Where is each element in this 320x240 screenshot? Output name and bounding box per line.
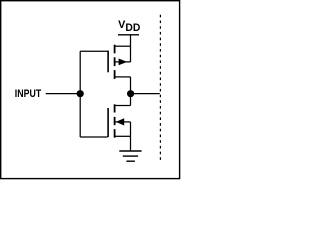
transistor Q2 NMOS bulk arrow (points left) [116,118,125,125]
transistor Q1 PMOS drain stub (bottom) [115,76,131,78]
transistor Q2 NMOS drain stub (top, to output) [115,105,131,107]
transistor Q2 NMOS source stub (bottom, to ground) [115,135,131,137]
wire gate bus vertical [79,51,81,137]
svg-text:V: V [118,19,125,31]
transistor Q2 NMOS bulk stub with arrow [115,121,131,123]
svg-text:INPUT: INPUT [15,88,41,100]
node output junction dot [127,90,134,97]
transistor Q2 NMOS channel segments [114,104,116,137]
transistor Q2 NMOS gate bar [107,108,109,137]
transistor Q1 PMOS bulk stub with arrow [115,61,131,63]
wire output lead [131,93,160,95]
wire dashed boundary line [159,15,161,163]
transistor Q1 PMOS channel segments [114,45,116,79]
transistor Q1 PMOS source stub (top, to VDD) [115,45,131,47]
node input junction dot [77,90,84,97]
transistor Q1 PMOS gate bar [107,51,109,73]
wire PMOS gate lead [80,50,108,52]
wire NMOS gate lead [80,136,108,138]
ground symbol [119,151,141,161]
wire output node to NMOS drain [130,94,132,106]
border frame [1,1,180,179]
wire PMOS drain to output node [130,77,132,94]
wire input lead [46,93,80,95]
transistor Q1 PMOS bulk arrow (points right) [119,59,128,66]
wire VDD rail to PMOS source and bulk [130,35,132,62]
wire NMOS bulk-source to ground [130,122,132,150]
power VDD rail bar [118,34,139,36]
svg-text:DD: DD [125,22,140,34]
